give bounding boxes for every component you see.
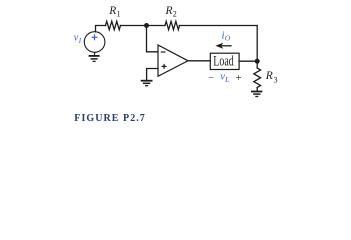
resistor R1: [106, 21, 121, 29]
wire top-left from source to R1: [96, 26, 106, 32]
wire noninverting input to ground: [147, 69, 158, 81]
current iO arrow: [215, 43, 231, 49]
wire R3 to ground: [256, 88, 258, 92]
svg-text:1: 1: [117, 10, 121, 19]
resistor R2: [165, 21, 179, 29]
svg-text:Load: Load: [213, 54, 234, 70]
op-amp plus sign: [162, 64, 167, 69]
ground at op-amp plus input: [141, 81, 153, 86]
source bottom stub: [94, 52, 96, 55]
wire R1 to node A: [121, 25, 147, 27]
op-amp U1: [158, 45, 188, 76]
wire node B to R3: [256, 61, 258, 68]
resistor R3: [254, 68, 261, 88]
svg-text:R: R: [165, 5, 173, 17]
ground under R3: [251, 92, 262, 97]
wire load to node B: [239, 60, 257, 62]
node A junction dot: [144, 23, 149, 28]
svg-text:−: −: [208, 73, 214, 84]
svg-text:R: R: [265, 70, 273, 82]
wire op-amp output: [188, 60, 210, 62]
wire node A to R2: [147, 25, 166, 27]
node B junction dot: [255, 59, 260, 64]
wire right vertical: [256, 26, 258, 62]
Load box: [210, 53, 239, 69]
svg-text:L: L: [224, 75, 229, 84]
source polarity plus: [92, 34, 98, 40]
svg-text:I: I: [78, 37, 82, 45]
ground under source: [89, 56, 100, 62]
svg-text:R: R: [108, 5, 116, 17]
svg-text:3: 3: [274, 76, 278, 85]
op-amp minus sign: [161, 51, 166, 53]
svg-text:O: O: [225, 34, 231, 43]
wire node A down to inverting input: [147, 26, 159, 52]
svg-text:2: 2: [173, 10, 177, 19]
source vI circle: [84, 32, 105, 53]
wire R2 to top-right corner: [180, 25, 258, 27]
svg-text:+: +: [235, 72, 241, 84]
svg-text:FIGURE P2.7: FIGURE P2.7: [74, 113, 146, 124]
